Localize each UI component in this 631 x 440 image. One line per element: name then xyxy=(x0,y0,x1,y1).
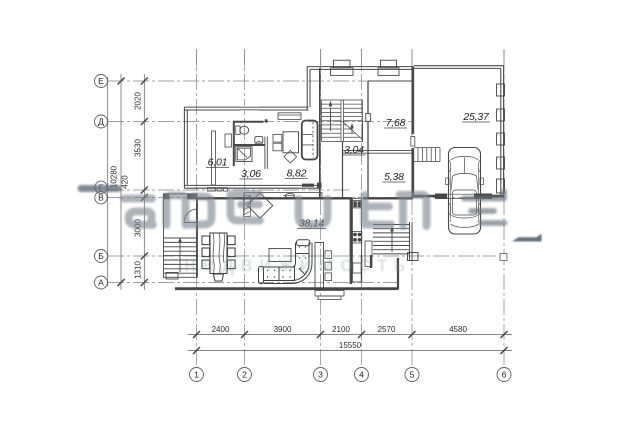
main stair xyxy=(322,100,363,142)
wall: SE corner vertical xyxy=(397,258,399,289)
wall: row В kitchen-garage segment xyxy=(363,197,413,199)
wardrobe 6.01 xyxy=(212,131,216,185)
wall: bathroom west xyxy=(233,122,235,166)
entrance stair arrow xyxy=(179,242,181,272)
dimension lines left xyxy=(108,74,145,290)
vanity counter xyxy=(234,144,265,146)
watermark underscore xyxy=(512,234,542,242)
svg-text:2570: 2570 xyxy=(378,325,396,334)
toilet xyxy=(236,126,240,135)
watermark line 1 xyxy=(0,0,4,4)
washbasin/TV xyxy=(255,137,263,144)
wall: row Г horizontal xyxy=(184,185,320,188)
wall: connector upper-left to middle xyxy=(307,67,310,110)
side counter xyxy=(365,241,372,267)
node marker row Б end square xyxy=(500,254,507,261)
wall: kitchen west xyxy=(350,198,352,284)
svg-text:2100: 2100 xyxy=(332,325,350,334)
garage inner stair xyxy=(414,148,440,162)
svg-text:4: 4 xyxy=(359,370,364,380)
wall cabinets marks xyxy=(208,188,216,192)
desk 6.01 xyxy=(225,134,232,147)
svg-text:3,04: 3,04 xyxy=(344,144,364,156)
main stair arrows xyxy=(330,108,332,131)
wall: stair landing east xyxy=(342,142,344,198)
kitchen counters and appliances xyxy=(208,188,373,283)
wall: middle section top xyxy=(307,67,414,70)
wall: upper-left section left xyxy=(184,107,187,188)
sofa vertical xyxy=(302,121,318,160)
svg-text:недвижимость: недвижимость xyxy=(184,252,412,276)
svg-text:5: 5 xyxy=(410,370,415,380)
chair 2 xyxy=(273,143,282,151)
watermark left bar xyxy=(78,185,122,192)
door leaf in stair hall right wall xyxy=(366,114,371,122)
dimension ticks left xyxy=(118,78,148,287)
entrance door swing xyxy=(184,209,198,223)
wall: garage front right stub xyxy=(474,195,504,198)
table xyxy=(283,132,299,153)
chair 1 xyxy=(273,135,282,143)
counter along row В xyxy=(244,193,322,199)
svg-text:Е: Е xyxy=(98,76,104,86)
dining table with chairs xyxy=(202,233,235,281)
svg-text:5,38: 5,38 xyxy=(384,171,404,183)
wall: stair hall right xyxy=(367,81,369,198)
svg-text:3,06: 3,06 xyxy=(241,168,261,180)
grid axis column lines top solid segments xyxy=(197,49,505,68)
svg-text:3530: 3530 xyxy=(133,139,142,157)
svg-text:6,01: 6,01 xyxy=(208,157,228,169)
dimension lines bottom xyxy=(188,335,512,351)
svg-text:25,37: 25,37 xyxy=(462,111,490,123)
wall: bathroom north (row Д) xyxy=(233,121,264,123)
room area labels xyxy=(208,111,490,230)
svg-text:10280: 10280 xyxy=(110,165,119,188)
wall stub SE xyxy=(370,255,372,268)
wall: stair hall left xyxy=(319,68,321,198)
wall: between 7.68 and 5.38 xyxy=(342,151,414,154)
shower xyxy=(236,147,252,162)
svg-text:2400: 2400 xyxy=(212,325,230,334)
svg-text:3: 3 xyxy=(318,370,323,380)
grid axis column lines xyxy=(197,49,505,366)
kitchen island diamond xyxy=(247,193,272,218)
wall: garage front left stub xyxy=(414,195,447,198)
svg-text:1310: 1310 xyxy=(133,261,142,279)
wall: house bottom xyxy=(175,287,399,290)
svg-text:2: 2 xyxy=(242,370,247,380)
svg-text:8,82: 8,82 xyxy=(287,168,307,180)
wall: garage top xyxy=(414,66,504,69)
window in top wall xyxy=(240,106,259,111)
svg-text:Д: Д xyxy=(98,117,104,127)
living 8.82 furniture xyxy=(273,121,318,164)
door stubs on row Г wall xyxy=(302,184,314,187)
chair diamond xyxy=(284,150,297,163)
grid axis row lines xyxy=(108,81,505,283)
bar stools xyxy=(325,251,332,281)
stove 4 burners xyxy=(352,232,362,244)
wall: house/garage divider xyxy=(411,67,414,134)
svg-text:Б: Б xyxy=(98,251,104,261)
corner sofa xyxy=(259,240,313,284)
kitchen east counter strip xyxy=(353,199,362,283)
coffee table xyxy=(269,249,291,262)
wall: upper-left section top xyxy=(184,107,308,110)
entrance stair enclosure xyxy=(164,194,198,277)
car in garage xyxy=(446,148,484,235)
svg-text:3900: 3900 xyxy=(274,325,292,334)
svg-text:7,68: 7,68 xyxy=(386,117,406,129)
walls xyxy=(164,60,505,299)
svg-text:6: 6 xyxy=(502,370,507,380)
kitchen sink unit xyxy=(353,201,361,208)
svg-text:2020: 2020 xyxy=(133,92,142,110)
door leaf garage divider xyxy=(411,137,415,147)
svg-text:4580: 4580 xyxy=(449,325,467,334)
radiator under window xyxy=(278,113,301,120)
svg-text:А: А xyxy=(98,278,104,288)
chimney 2 xyxy=(378,68,399,76)
fridge xyxy=(353,263,361,273)
garage door sill xyxy=(447,193,474,195)
wall: partition bath/living xyxy=(265,119,268,122)
wall: garage right with pilasters xyxy=(501,66,504,198)
wall: 7.68 room top inner xyxy=(368,80,414,82)
svg-text:В: В xyxy=(98,193,104,203)
bathroom walls and fixtures xyxy=(212,119,268,185)
svg-text:1: 1 xyxy=(194,370,199,380)
chimney 1 xyxy=(331,68,354,76)
sink on counter xyxy=(286,193,295,198)
terrace stair SE xyxy=(373,222,418,261)
wall: row В left segment over entrance xyxy=(197,197,352,199)
svg-text:15550: 15550 xyxy=(339,341,362,350)
svg-text:420: 420 xyxy=(121,175,130,189)
porch steps bottom xyxy=(315,291,344,297)
entrance stair steps xyxy=(164,238,197,273)
garage wall pilasters xyxy=(497,84,505,96)
dimension ticks bottom xyxy=(193,331,508,354)
axis circles left А-Е xyxy=(95,75,108,290)
axis circles bottom 1-6 xyxy=(190,368,512,382)
sideboard behind sofa xyxy=(315,243,324,289)
watermark letter 8 xyxy=(464,192,505,224)
wall stub below entrance stair xyxy=(166,273,178,280)
